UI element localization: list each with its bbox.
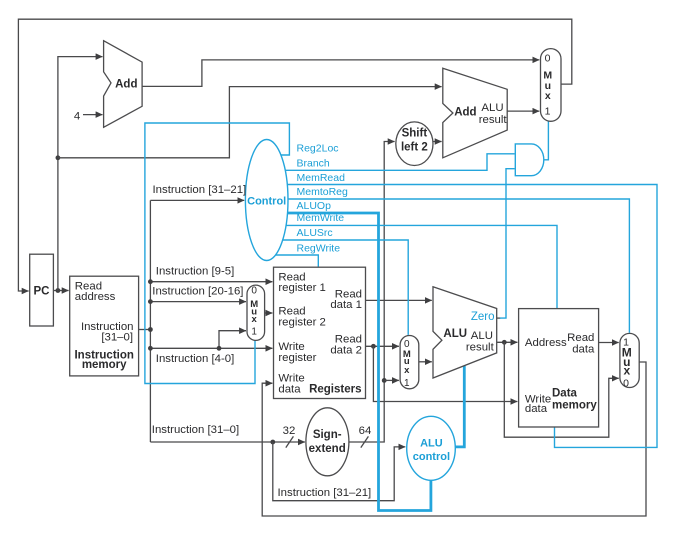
wire: MemtoReg control to mux M4 select [288,199,629,333]
svg-text:Add: Add [115,79,137,91]
wire: Add (PC+4) output to mux M1 input 0 [142,60,539,87]
svg-text:Instruction [4-0]: Instruction [4-0] [156,353,235,365]
mux M1 (PC source mux, top right) [541,49,562,122]
svg-text:ALU: ALU [420,438,443,450]
wire: Reg2Loc control to mux M2 select [145,123,290,384]
svg-text:Address: Address [525,337,567,349]
wire: Read data 2 down to Data memory Write data [373,346,517,401]
svg-text:memory: memory [552,400,597,412]
svg-text:Read: Read [567,332,594,344]
wire: Read data 2 to mux M3 input 0 [366,345,399,347]
svg-text:32: 32 [283,425,296,437]
wire: Instruction [20-16] to mux M2 input 0 [150,301,246,303]
pin: 64-bit slash on sign-extend output [361,436,369,447]
wire: MemRead control to Data memory read enable [287,185,657,448]
block: Instruction memory [70,276,139,376]
wire: RegWrite control to Registers write enable [276,255,319,267]
svg-text:register 2: register 2 [278,316,325,328]
svg-text:Reg2Loc: Reg2Loc [297,142,339,154]
svg-text:x: x [404,365,410,376]
svg-text:[31–0]: [31–0] [101,331,133,343]
wire: branch adder Add2 output to mux M1 input 1 [507,110,539,112]
adder Add2 (branch target, ALU result) [443,68,507,158]
svg-text:ALU: ALU [471,330,493,342]
svg-text:ALUSrc: ALUSrc [297,227,333,239]
svg-text:ALU: ALU [481,102,503,114]
wire: Read data 1 to ALU input 1 [366,299,432,301]
svg-text:0: 0 [623,377,629,389]
wire: Data memory Read data to mux M4 input 1 [599,342,619,344]
svg-text:control: control [413,451,450,463]
wire: ALU Zero output stub [497,317,501,319]
wire: ALU Zero flag to AND gate input 2 [500,169,515,318]
svg-text:1: 1 [545,105,551,117]
node: junction Instruction [20-16] [148,299,153,304]
wire: mux M2 output to Read register 2 [265,312,273,314]
adder Add (PC+4) [104,41,143,128]
node: junction Instruction [9-5] [148,279,153,284]
node: junction Instruction [4-0] tap [217,346,222,351]
wire: constant 4 into Add bottom input [83,114,103,116]
svg-text:data 1: data 1 [330,299,362,311]
svg-text:Instruction [9-5]: Instruction [9-5] [156,265,235,277]
ALU U1 (main ALU) [433,287,497,378]
svg-text:data: data [572,343,595,355]
svg-text:1: 1 [404,378,410,389]
block: ALU control [407,416,456,480]
mux M2 (read register 2 source mux) [247,285,265,340]
wire: Sign-extend output up to Shift left 2 [349,142,395,443]
svg-text:ALU: ALU [443,328,467,340]
svg-text:x: x [623,363,630,377]
node: sign-extend output junction [382,378,387,383]
svg-text:MemtoReg: MemtoReg [297,186,349,198]
node: Read data 2 junction [371,344,376,349]
svg-text:4: 4 [74,111,80,123]
wire: PC value to branch adder Add2 top input [58,87,442,158]
svg-text:left 2: left 2 [401,142,428,154]
wire: sign-extend value to mux M3 input 1 [384,379,399,381]
gate: AND (branch AND zero) [515,144,544,176]
wire: Instruction [4-0] branch up to mux M2 input 1 [219,331,246,349]
svg-text:MemWrite: MemWrite [297,212,345,224]
svg-text:register: register [278,352,316,364]
node: PC value branch junction [56,155,61,160]
block: Control unit [245,140,288,261]
node: junction Instruction [4-0] on bus [148,346,153,351]
svg-text:result: result [479,114,508,126]
node: junction on sign-extend feed [270,440,275,445]
mux M3 (ALU operand 2 mux) [400,336,419,389]
svg-text:register 1: register 1 [278,282,325,294]
svg-text:Zero: Zero [471,311,495,323]
wire: Instruction [31-0] to Sign-extend [150,441,305,443]
svg-text:Add: Add [454,107,476,119]
svg-text:Instruction [20-16]: Instruction [20-16] [152,285,243,297]
wire: mux M4 output write-back to Registers Write data [262,362,646,516]
node: instruction bus junction at memory output [148,327,153,332]
wire: MemWrite control to Data memory write enable [286,225,557,308]
svg-text:RegWrite: RegWrite [297,242,341,254]
wire: Instruction [4-0] to Write register [150,347,272,349]
svg-text:Instruction [31–21]: Instruction [31–21] [278,487,372,499]
svg-text:0: 0 [251,286,257,297]
wire: ALU control output bus to ALU [455,366,464,447]
svg-text:memory: memory [82,359,127,371]
wire: ALU result to Data memory Address [497,341,518,343]
wire: PC output to Instruction memory Read address [53,290,68,292]
svg-text:data: data [278,384,301,396]
svg-text:x: x [545,90,551,102]
wire: instruction bus vertical [149,200,151,442]
wire: mux M3 output to ALU input 2 [419,361,432,363]
wire: ALUOp control bus to ALU control [288,213,431,511]
svg-text:ALUOp: ALUOp [297,200,332,212]
block: Sign-extend [306,408,349,476]
wire: mux M1 output to PC (feedback loop around top) [18,19,571,291]
svg-text:Shift: Shift [402,128,428,140]
svg-text:Control: Control [247,195,286,207]
svg-text:64: 64 [359,425,372,437]
svg-text:data 2: data 2 [330,344,362,356]
svg-text:result: result [466,341,495,353]
node: ALU result junction [502,340,507,345]
wire: ALU result down and around to mux M4 input 0 [504,342,618,437]
wire: Branch control to AND gate input 1 [285,154,515,171]
svg-text:Sign-: Sign- [313,429,342,441]
register PC [30,254,54,326]
svg-text:data: data [525,403,548,415]
svg-text:Branch: Branch [297,158,330,170]
block: Data memory [519,309,599,427]
block: Shift left 2 [396,122,433,166]
svg-text:PC: PC [34,286,50,298]
wire: Instruction [31-21] to Control input [150,199,244,201]
block: Registers (register file) [274,267,366,398]
svg-text:MemRead: MemRead [297,172,346,184]
wire: Shift left 2 output to branch adder Add2 [433,141,442,143]
node: PC output junction [56,288,61,293]
svg-text:extend: extend [309,443,346,455]
wire: PC value up to Add (PC+4 adder) input [58,57,103,291]
svg-text:0: 0 [545,53,551,65]
svg-text:Instruction [31–0]: Instruction [31–0] [152,424,239,436]
svg-text:1: 1 [251,326,257,337]
svg-text:Registers: Registers [309,384,361,396]
wire: Instruction [31-21] to ALU control [273,442,406,501]
mux M4 (write-back mux) [620,333,639,387]
svg-text:address: address [75,291,116,303]
wire: Instruction [9-5] to Read register 1 [150,281,272,283]
svg-text:Data: Data [552,388,578,400]
wire: Instruction memory output to instruction bus [139,329,151,331]
svg-text:Instruction [31–21]: Instruction [31–21] [153,184,247,196]
wire: ALUSrc control to mux M3 select [283,240,409,335]
pin: 32-bit slash on sign-extend input [286,436,294,447]
wire: AND gate output to mux M1 select [544,121,549,160]
svg-text:x: x [252,314,258,325]
